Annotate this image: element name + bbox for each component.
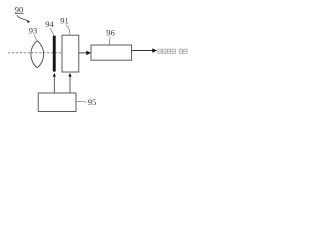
svg-text:91: 91 [60,15,69,25]
svg-text:96: 96 [106,27,115,37]
svg-text:90: 90 [15,4,24,14]
svg-text:94: 94 [45,19,54,29]
svg-text:95: 95 [88,97,97,107]
svg-text:93: 93 [29,26,38,36]
